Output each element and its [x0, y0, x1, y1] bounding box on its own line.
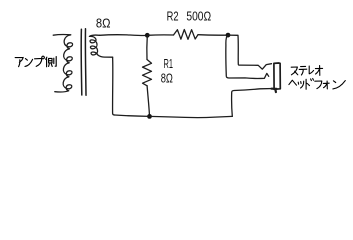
ス	[291, 67, 298, 75]
wire: node B down to plug ring contact	[226, 35, 269, 78]
transformer T1 primary winding	[53, 34, 72, 92]
ド	[306, 79, 313, 90]
オ	[315, 66, 322, 76]
svg-text:R2: R2	[167, 9, 179, 24]
headphone plug body	[274, 63, 280, 89]
テ	[299, 66, 307, 75]
wire: bottom rail riser to plug sleeve contact	[232, 89, 274, 117]
node C junction dot (R1 to bottom wire)	[147, 114, 152, 119]
ヘ	[289, 80, 297, 85]
側	[46, 57, 56, 67]
svg-text:8Ω: 8Ω	[161, 71, 173, 86]
transformer core	[80, 29, 83, 95]
resistor R1 vertical lead from node A	[146, 35, 148, 59]
label ヘッドフォン (headphone)	[289, 79, 345, 90]
svg-text:8Ω: 8Ω	[96, 15, 111, 30]
ッ	[298, 81, 304, 88]
resistor R2 (zigzag)	[174, 30, 199, 40]
node A junction dot	[145, 33, 150, 38]
プ	[35, 56, 45, 66]
svg-text:500Ω: 500Ω	[186, 9, 211, 24]
レ	[309, 66, 313, 74]
plug sleeve junction blob	[272, 89, 277, 92]
resistor R1 lower lead to bottom wire	[147, 86, 149, 117]
label アンプ側 (amp side)	[15, 56, 56, 67]
resistor R1 (zigzag)	[143, 60, 152, 86]
label ステレオ (stereo)	[291, 66, 322, 76]
node B junction dot	[226, 33, 231, 38]
wire: node A to R2	[147, 34, 173, 36]
ン	[25, 59, 33, 67]
wire: bottom rail	[115, 115, 233, 118]
フ	[315, 81, 322, 89]
wire: secondary bottom lead down	[113, 57, 115, 115]
svg-text:R1: R1	[164, 56, 174, 71]
ン	[333, 81, 345, 89]
ォ	[323, 81, 329, 89]
wire: R2 to node B	[198, 34, 228, 36]
ア	[15, 57, 23, 66]
transformer T1 secondary winding (8 ohm)	[89, 35, 112, 57]
wire: secondary top to node A	[100, 34, 148, 37]
wire: node B to plug tip contact	[228, 35, 272, 69]
